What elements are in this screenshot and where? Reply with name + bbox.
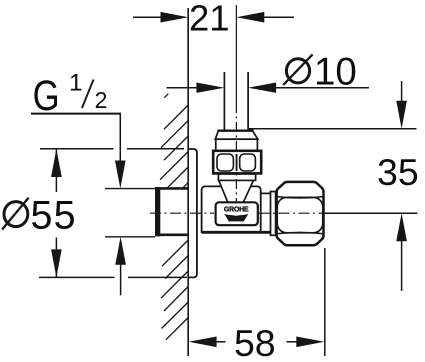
compression nut middle facet [277, 197, 323, 232]
dimension D55 text [4, 202, 28, 227]
svg-text:1: 1 [69, 70, 83, 97]
G 1/2 leader [119, 114, 121, 162]
dimension 58 left arrow [189, 337, 217, 348]
dimension 35 top arrow [401, 81, 403, 102]
outlet ring [271, 192, 276, 236]
GROHE label plate [216, 202, 258, 225]
dimension D55 down arrow [51, 249, 62, 277]
dimension 58 right arrow [287, 341, 298, 343]
valve body [202, 186, 261, 233]
dimension D55 dim line [55, 149, 57, 192]
dimension 35 bottom extension line [325, 212, 418, 214]
riser centerline [235, 5, 237, 103]
G 1/2 underline [31, 113, 121, 115]
dimension D55 bottom extension line [39, 276, 115, 278]
upper nut left facet [217, 154, 233, 171]
GROHE emblem [224, 214, 248, 222]
dimension D10 arrow right and leader [248, 83, 276, 93]
compression nut top facet line [277, 197, 324, 198]
flange (escutcheon) [188, 149, 197, 277]
dimension 21 arrow left [161, 12, 189, 23]
riser tube [223, 72, 225, 131]
svg-text:21: 21 [189, 0, 230, 39]
compression nut outline [277, 182, 324, 245]
dimension 21 arrow right [236, 12, 264, 23]
dimension 35 bottom arrow [396, 213, 407, 241]
valve body bottom edge [202, 231, 271, 234]
upper nut right facet [240, 154, 256, 171]
dimension D10 text [286, 59, 309, 83]
svg-text:58: 58 [234, 322, 276, 362]
horizontal axis centerline [150, 212, 327, 214]
outlet stub [261, 192, 271, 194]
dimension 21 line right [263, 16, 294, 18]
dimension 35 top extension line [249, 128, 417, 130]
lower band [218, 173, 255, 180]
G 1/2 fraction slash [82, 80, 94, 109]
svg-text:2: 2 [95, 87, 108, 113]
inlet pipe G1/2 stub [105, 187, 188, 237]
svg-text:35: 35 [377, 151, 419, 193]
svg-text:GROHE: GROHE [224, 206, 249, 213]
dimension D55 up arrow [51, 149, 62, 177]
wall face line [187, 8, 189, 356]
dimension D10 arrow left [167, 87, 198, 89]
G 1/2 arrow [115, 161, 126, 189]
upper nut center seam [236, 154, 238, 171]
upper hex nut [213, 151, 261, 174]
upper band [216, 139, 258, 151]
svg-text:55: 55 [31, 194, 77, 238]
neck slants [219, 180, 228, 202]
compression nut bottom facet line [277, 232, 324, 233]
wall hatching [160, 94, 188, 340]
dimension D55 top extension line [40, 148, 114, 150]
svg-text:10: 10 [314, 50, 357, 93]
ferrule trapezoid [215, 131, 257, 140]
dimension 21 line left [133, 16, 162, 18]
G 1/2 lower arrow [115, 237, 126, 265]
dimension 58 right extension line [324, 248, 326, 356]
